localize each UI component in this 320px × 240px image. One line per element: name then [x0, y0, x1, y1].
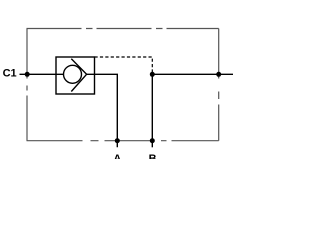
- svg-text:A: A: [113, 153, 121, 159]
- svg-text:B: B: [149, 153, 157, 159]
- svg-text:C1: C1: [3, 68, 17, 80]
